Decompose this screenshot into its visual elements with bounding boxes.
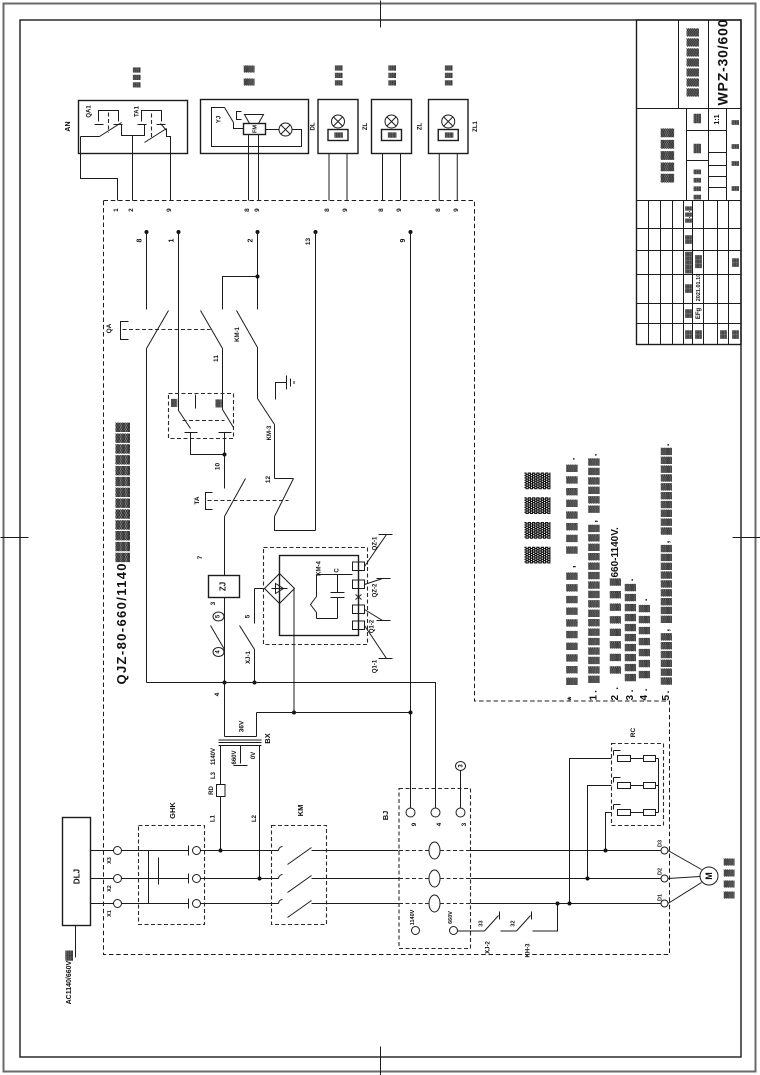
wire 660V tap to XJ-2 (458, 930, 485, 932)
lamp box 3 lamp cross (333, 117, 342, 126)
wire signal box lead 8 (248, 135, 250, 201)
svg-text:QA1: QA1 (87, 105, 93, 118)
plug GHK dashed box (139, 826, 205, 925)
svg-text:11: 11 (213, 355, 220, 362)
transformer secondary left lead (224, 683, 226, 737)
wire 12 jog (275, 478, 294, 480)
push button TA1 cap (142, 111, 162, 122)
terminal block QZ-1 (353, 562, 365, 571)
centering tick bottom edge (380, 1047, 382, 1075)
isolator QA linkage dashed (123, 329, 211, 331)
push button TA1 actuator dashed link (151, 114, 153, 139)
wire QS outputs joined (191, 433, 225, 455)
measuring point 3 circle (456, 762, 466, 771)
svg-text:GHK: GHK (168, 802, 177, 819)
BJ terminal 3 (456, 808, 465, 817)
lamp box 5 wire lead 8 (438, 154, 440, 201)
svg-text:4: 4 (214, 692, 221, 696)
wire 3 below ZJ (224, 598, 226, 683)
svg-text:KM: KM (296, 805, 305, 817)
rail 2 with node dot (256, 230, 260, 234)
lamp box 4 wire lead 8 (382, 154, 384, 201)
rail 8 with node dot (145, 230, 149, 234)
svg-text:XJ-2: XJ-2 (486, 941, 492, 954)
svg-text:DL: DL (311, 122, 317, 130)
BJ terminal 4 (431, 808, 440, 817)
svg-text:2: 2 (247, 238, 254, 242)
rectifier bottom lead into unit (279, 604, 281, 636)
svg-text:AN: AN (65, 121, 72, 131)
svg-text:X3: X3 (107, 857, 113, 864)
GHK internal crossover bus (149, 851, 159, 904)
DLJ terminals X3 X2 X1 (114, 847, 122, 855)
wire QA1 left lead (81, 137, 100, 154)
svg-text:M: M (704, 872, 714, 880)
wire below XJ-1 to node W4 (254, 650, 256, 683)
title block row lines upper section (678, 20, 680, 109)
switch QS linkage dashed (183, 420, 225, 422)
svg-text:KH-3: KH-3 (526, 943, 532, 958)
svg-text:▓▓▓: ▓▓▓ (132, 67, 140, 88)
svg-text:▓▓: ▓▓ (695, 330, 702, 339)
svg-text:3. ▓▓▓▓▓▓▓▓▓▓.: 3. ▓▓▓▓▓▓▓▓▓▓. (624, 578, 636, 700)
wire 10 down to TA contact (224, 455, 226, 489)
switch QS dashed box (169, 394, 234, 439)
KM-4 internal top and bottom wires (317, 575, 353, 619)
switch QS pole 2 seat bar (219, 432, 232, 434)
wire button box lead 2 (132, 154, 134, 201)
svg-text:1: 1 (168, 238, 175, 242)
rectifier unit dashed box (264, 548, 368, 645)
protector BJ dashed box (399, 789, 471, 949)
contact YJ blade (225, 108, 234, 123)
svg-text:▓: ▓ (731, 161, 739, 166)
rectifier bridge diamond (265, 574, 295, 604)
transformer primary bar (219, 745, 262, 747)
snubber branch 2 lead to phase (588, 786, 612, 879)
svg-text:ZL: ZL (363, 123, 369, 131)
svg-text:L3: L3 (211, 771, 217, 779)
measuring point 4 circle (213, 648, 224, 657)
svg-text:BJ: BJ (381, 811, 390, 821)
svg-text:TA: TA (194, 496, 201, 504)
snubber branch 2 wires (631, 785, 659, 787)
snubber branch 3 wires (631, 812, 659, 814)
isolator QA pole on rail 8 (147, 311, 169, 349)
wire L1 below fuse (220, 797, 222, 851)
rail 8 continues below QA (146, 349, 148, 683)
capacitor C symbol (331, 575, 345, 619)
centering tick right edge (733, 537, 760, 539)
lamp box 5 outline (429, 100, 469, 154)
BJ current sensors (429, 842, 440, 859)
svg-text:BX: BX (263, 733, 272, 743)
svg-text:▓: ▓ (731, 120, 739, 125)
output terminal D1 (661, 900, 668, 907)
svg-text:KM-4: KM-4 (317, 561, 323, 576)
svg-text:36V: 36V (238, 720, 245, 732)
svg-text:32: 32 (510, 920, 516, 926)
starter enclosure dashed boundary (104, 201, 670, 955)
push button TA1 terminal stubs (138, 124, 166, 126)
lamp box 5 lamp circle (442, 115, 455, 128)
svg-text:9: 9 (400, 238, 407, 242)
svg-text:▓▓: ▓▓ (685, 309, 692, 318)
svg-text:▓: ▓ (731, 186, 739, 191)
phase rows GHK to KM (201, 850, 279, 852)
svg-text:9: 9 (166, 208, 173, 212)
svg-text:▓▓: ▓▓ (685, 330, 692, 339)
svg-text:YJ: YJ (217, 116, 223, 123)
contact TA bracket (206, 493, 213, 510)
svg-text:QJZ-80-660/1140▓▓▓▓▓▓▓▓▓▓▓▓▓: QJZ-80-660/1140▓▓▓▓▓▓▓▓▓▓▓▓▓ (114, 422, 130, 685)
svg-text:1. ▓▓▓▓▓▓▓▓▓▓▓▓▓▓▓▓▓, ▓▓▓▓▓▓.: 1. ▓▓▓▓▓▓▓▓▓▓▓▓▓▓▓▓▓, ▓▓▓▓▓▓. (588, 453, 600, 700)
push button QA1 cap (99, 111, 119, 122)
svg-text:2: 2 (128, 208, 135, 212)
contact XJ blade (left) (211, 626, 225, 650)
svg-text:QZ-1: QZ-1 (373, 536, 379, 550)
primary tap 0V lead (259, 746, 261, 879)
svg-text:5. ▓▓▓▓▓▓, ▓▓▓▓▓▓▓▓▓, ▓▓▓▓▓▓▓▓: 5. ▓▓▓▓▓▓, ▓▓▓▓▓▓▓▓▓, ▓▓▓▓▓▓▓▓▓▓. (660, 443, 672, 700)
phase wire rows from DLJ (91, 850, 114, 852)
snubber right bus (658, 759, 660, 813)
svg-text:9: 9 (453, 208, 460, 212)
snubber branch 1 wires (631, 758, 659, 760)
node on common wire 4 (223, 681, 227, 685)
rail 1 with node dot (177, 230, 181, 234)
lamp box 3 tag plate (328, 130, 348, 141)
svg-text:8: 8 (324, 208, 331, 212)
signal lamp circle (279, 123, 292, 136)
centering tick top edge (380, 1, 382, 28)
svg-text:L1: L1 (211, 814, 217, 822)
svg-text:▓▓▓: ▓▓▓ (695, 254, 702, 268)
svg-text:9: 9 (396, 208, 403, 212)
wire signal box internal loop (212, 108, 302, 147)
svg-text:KM-1: KM-1 (235, 327, 241, 342)
snubber branch 3 resistors (618, 810, 631, 816)
KM main contact pole 2 (279, 875, 283, 879)
title block main dividers (637, 108, 742, 110)
title block outline (637, 20, 742, 345)
wire button box lead 1 (jog) (81, 154, 118, 201)
rectifier right lead down to 36V node (293, 589, 295, 713)
connector DLJ box (63, 818, 91, 926)
svg-text:▓▓: ▓▓ (685, 235, 692, 244)
svg-text:660V: 660V (232, 750, 238, 764)
svg-text:D1: D1 (657, 894, 663, 901)
svg-text:▓▓▓: ▓▓▓ (388, 65, 396, 86)
snubber branch 3 lead to phase (606, 813, 612, 851)
svg-text:0V: 0V (251, 752, 257, 759)
svg-text:L2: L2 (252, 814, 258, 822)
36V return wire horizontal (257, 712, 411, 714)
svg-text:▓▓▓: ▓▓▓ (334, 65, 342, 86)
lamp box 3 lamp circle (332, 115, 345, 128)
snubber branch 1 lead to phase (570, 759, 612, 904)
svg-text:WPZ-30/600: WPZ-30/600 (714, 19, 730, 105)
measuring point 5 circle (213, 612, 224, 621)
svg-text:RD: RD (209, 786, 215, 795)
svg-text:▓▓: ▓▓ (732, 258, 739, 267)
svg-text:ZL1: ZL1 (473, 121, 479, 132)
svg-text:DLJ: DLJ (72, 869, 81, 884)
contact TA blade (225, 479, 246, 517)
svg-text:▓▓: ▓▓ (693, 144, 701, 154)
svg-text:▓▓: ▓▓ (215, 399, 222, 408)
contact KM-1 blade (237, 311, 258, 348)
horn cone (245, 115, 264, 124)
relay coil ZJ box (209, 576, 240, 598)
primary tap 660V stub (234, 746, 248, 766)
svg-text:▓▓: ▓▓ (732, 330, 739, 339)
KM-4 branch wiring (311, 575, 317, 619)
svg-text:▓▓: ▓▓ (685, 284, 692, 293)
svg-text:D3: D3 (657, 840, 663, 847)
svg-text:Q1-2: Q1-2 (370, 619, 376, 633)
switch QS center stub (195, 395, 197, 409)
snubber branch 2 resistors (618, 783, 631, 789)
BJ tap terminal 1140V (412, 927, 420, 935)
contact YJ terminal bracket (237, 112, 242, 120)
common wire 4 horizontal (147, 683, 436, 809)
contact TA linkage dashed (208, 500, 289, 502)
isolator QA bracket (121, 322, 129, 340)
svg-text:AC1140/660V▓▓: AC1140/660V▓▓ (65, 950, 73, 1005)
lamp box 3 outline (318, 100, 358, 154)
svg-text:KM-3: KM-3 (267, 425, 273, 440)
svg-text:▓▓: ▓▓ (693, 114, 701, 124)
lamp box 4 lamp circle (385, 115, 398, 128)
svg-text:EFg: EFg (696, 308, 702, 320)
small link between blocks (356, 595, 362, 600)
svg-text:X2: X2 (107, 885, 113, 892)
svg-text:C: C (335, 568, 341, 573)
svg-text:7: 7 (197, 555, 204, 559)
phase rows to output terminals (471, 850, 662, 852)
terminal QZ-1 leader (365, 535, 393, 567)
motor circle M (700, 867, 718, 885)
contactor KM dashed box (272, 826, 327, 925)
primary tap 1140V lead (220, 746, 222, 785)
switch QS pole 2 blade (223, 410, 234, 428)
transformer BX core lines (219, 740, 262, 743)
svg-text:1140V: 1140V (211, 748, 217, 765)
terminal QZ-2 leader (365, 579, 391, 585)
signal box outline (201, 100, 309, 154)
svg-text:▓▓: ▓▓ (170, 398, 177, 407)
wires terminals to motor (668, 851, 702, 904)
svg-text:10: 10 (214, 463, 221, 471)
rail 2 branch to wire 11 (223, 277, 258, 310)
svg-text:12: 12 (265, 476, 272, 484)
svg-text:Q1-1: Q1-1 (373, 659, 379, 673)
svg-text:▓: ▓ (387, 132, 397, 138)
svg-text:ZL: ZL (418, 123, 424, 131)
push button TA1 NC contact blade with seat (145, 124, 167, 143)
svg-text:9: 9 (254, 208, 261, 212)
transformer secondary right lead (256, 713, 258, 737)
svg-text:8: 8 (378, 208, 385, 212)
svg-text:2021.01.10: 2021.01.10 (696, 274, 702, 302)
phase rows to GHK sockets (122, 850, 189, 852)
svg-text:▓.▓.▓: ▓.▓.▓ (685, 206, 692, 223)
svg-text:1:1: 1:1 (714, 114, 721, 124)
terminal block QZ-2 (353, 580, 365, 589)
button box AN outline (79, 101, 188, 154)
svg-text:X1: X1 (107, 910, 113, 917)
svg-text:D2: D2 (657, 868, 663, 875)
lamp box 4 outline (372, 100, 412, 154)
push button QA1 terminal stubs (95, 124, 123, 126)
svg-text:▓▓▓: ▓▓▓ (445, 65, 453, 86)
lamp box 4 lamp cross (387, 117, 396, 126)
wire 7 (224, 517, 226, 576)
wire 5 from rectifier (255, 589, 265, 624)
wire 12 vertical (274, 425, 276, 479)
svg-text:13: 13 (305, 238, 312, 246)
lamp box 4 tag plate (382, 130, 402, 141)
output terminal D3 (661, 847, 668, 854)
BJ tap terminal 660V (450, 927, 458, 935)
terminal block Q1-1 (353, 621, 365, 630)
svg-text:33: 33 (478, 920, 484, 926)
svg-text:QZ-2: QZ-2 (373, 583, 379, 597)
switch QS pole 1 blade (179, 411, 191, 429)
rail 13 with node dot (314, 230, 318, 234)
lamp box 3 wire lead 9 (346, 154, 348, 201)
snubber branch 1 resistors (618, 756, 631, 762)
svg-text:▓: ▓ (334, 132, 344, 138)
svg-text:9: 9 (411, 822, 418, 826)
wire between contacts (501, 930, 517, 932)
wire 11 below QA (222, 349, 224, 410)
svg-text:ZJ: ZJ (218, 582, 227, 591)
signal lamp cross (281, 125, 290, 134)
transformer secondary bar (225, 736, 257, 738)
contact TA pole 2 blade (275, 479, 294, 517)
svg-text:4: 4 (436, 822, 443, 826)
centering tick left edge (1, 537, 29, 539)
wire middle terminal 2 (132, 136, 134, 154)
push button QA1 NO contact blade (100, 123, 122, 137)
terminal Q1-2 leader (365, 610, 391, 621)
wire lamp to horn (266, 129, 280, 131)
wire YJ to horn FM (234, 123, 244, 129)
wire signal box lead 9 (258, 135, 260, 201)
svg-text:▓▓: ▓▓ (720, 330, 727, 339)
svg-text:9: 9 (342, 208, 349, 212)
lamp box 5 wire lead 9 (456, 154, 458, 201)
fuse RD (217, 785, 226, 797)
terminal Q1-1 leader (365, 626, 393, 659)
svg-text:8: 8 (244, 208, 251, 212)
title block small cell dividers (687, 130, 727, 132)
wire point3 to BJ (460, 771, 462, 809)
wire 12 to rail 13 bottom (275, 517, 316, 531)
svg-text:660V: 660V (448, 911, 454, 924)
contact KM-3 blade (258, 399, 275, 425)
lamp box 3 wire lead 8 (328, 154, 330, 201)
contact XJ-1 blade (240, 626, 255, 650)
rail 9 with node dot (409, 230, 413, 234)
svg-text:8: 8 (136, 238, 143, 242)
KM-4 unit box (280, 556, 359, 636)
contact KH-3 blade (517, 912, 532, 932)
svg-text:FM: FM (252, 125, 258, 133)
isolator QA pole on wire 11 (201, 311, 223, 349)
svg-text:QA: QA (106, 323, 113, 333)
svg-text:3: 3 (210, 601, 217, 605)
svg-text:XJ-1: XJ-1 (246, 651, 252, 664)
svg-text:TA1: TA1 (135, 105, 141, 117)
svg-text:1140V: 1140V (410, 909, 416, 925)
title block revision table columns (637, 228, 742, 230)
DLJ earth tail (75, 926, 77, 958)
lamp box 4 wire lead 9 (400, 154, 402, 201)
svg-text:RC: RC (630, 728, 637, 738)
wire QA1 right to TA1 left (122, 125, 145, 136)
KM main contact pole 3 (279, 900, 283, 904)
snubber RC dashed box (612, 744, 664, 826)
svg-text:▓: ▓ (731, 144, 739, 149)
rail 2 below KM-1 (257, 348, 259, 399)
lamp box 5 tag plate (438, 130, 458, 141)
svg-text:1: 1 (113, 208, 120, 212)
lamp box 5 lamp cross (444, 117, 453, 126)
rectifier diode mark (272, 584, 288, 594)
svg-text:8: 8 (435, 208, 442, 212)
svg-text:5: 5 (244, 614, 251, 618)
horn FM body (244, 124, 266, 135)
ground symbol (276, 376, 295, 400)
push button QA1 actuator dashed link (108, 113, 110, 133)
svg-text:▓: ▓ (444, 132, 454, 138)
wire chain up to phase 3 (533, 904, 558, 932)
svg-text:660-1140V.: 660-1140V. (610, 527, 621, 577)
wire TA1 right lead (167, 129, 171, 154)
svg-text:▓▓▓▓▓: ▓▓▓▓▓ (685, 251, 692, 273)
svg-text:3: 3 (461, 822, 468, 826)
contact XJ-2 blade (485, 912, 500, 932)
BJ terminal 9 (406, 808, 415, 817)
title block revision table rows (648, 201, 650, 345)
KM main contact pole 1 (279, 847, 283, 851)
wire button box lead 9 (170, 154, 172, 201)
output terminal D2 (661, 875, 668, 882)
terminal block Q1-2 (353, 605, 365, 614)
switch QS pole 1 seat bar (185, 432, 198, 434)
svg-text:▓▓▓▓▓: ▓▓▓▓▓ (660, 128, 675, 182)
